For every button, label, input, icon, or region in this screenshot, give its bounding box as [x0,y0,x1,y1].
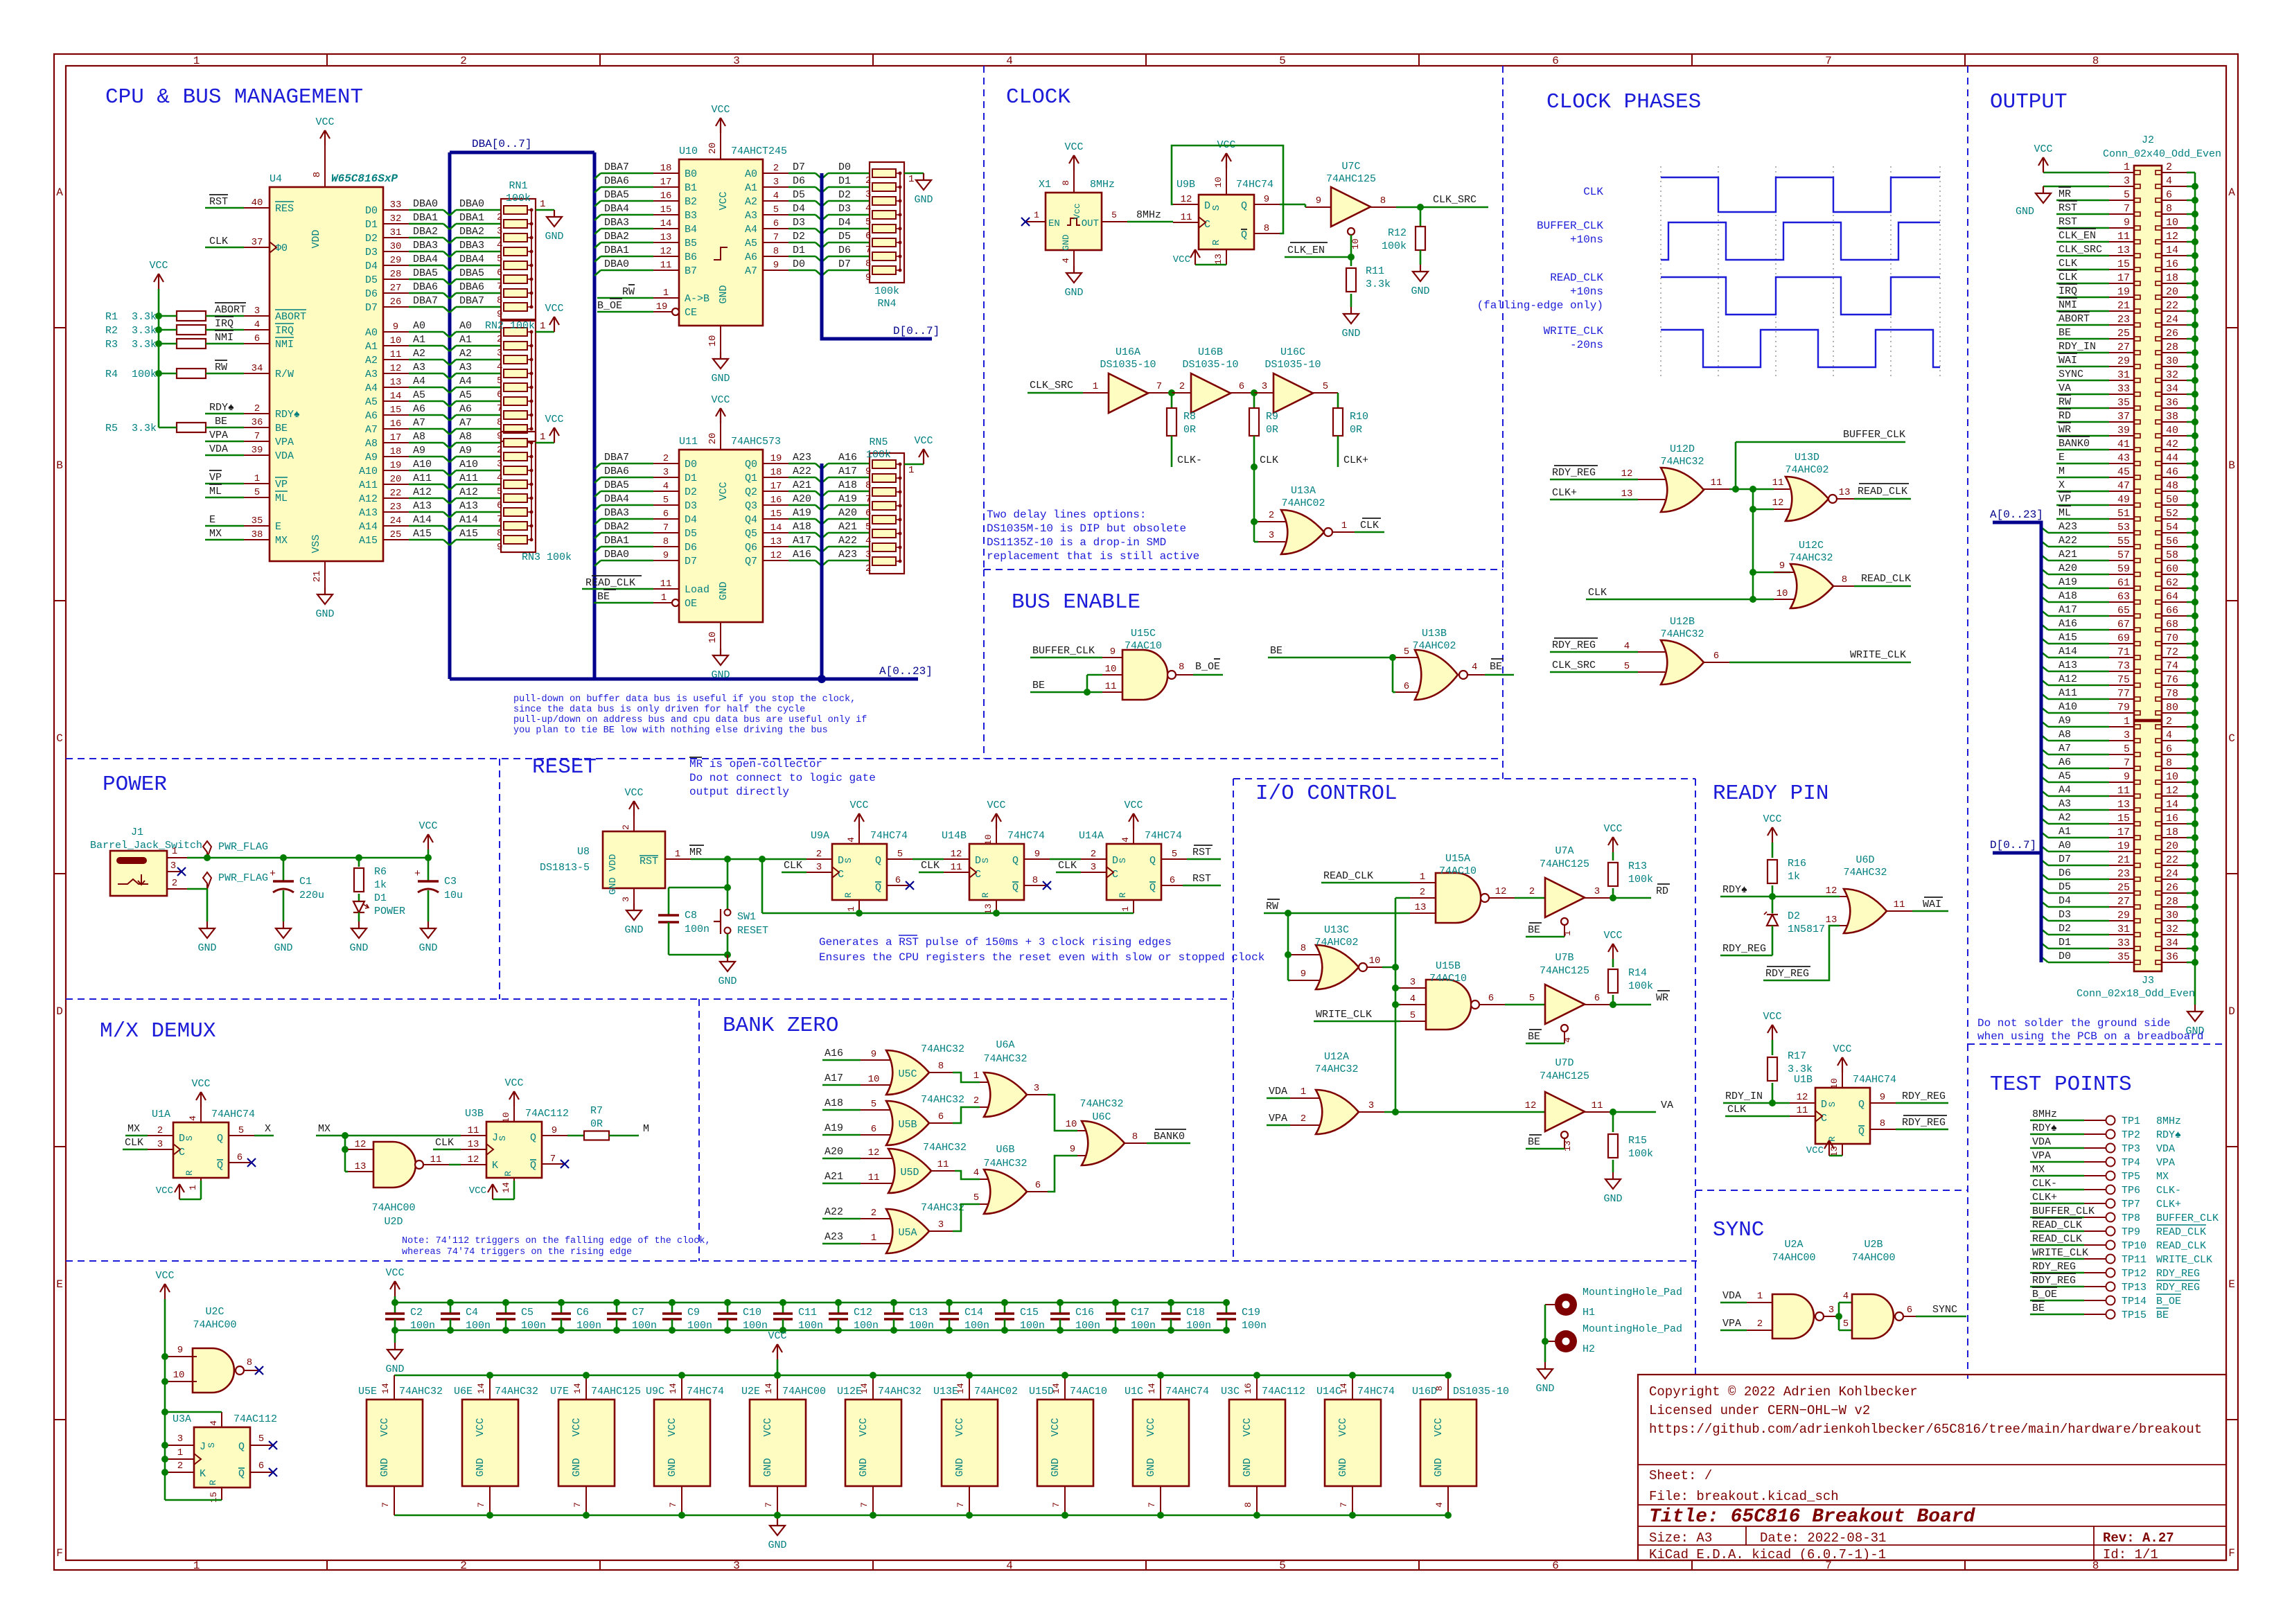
pin 15 B3 [653,214,679,215]
svg-text:BE: BE [1528,1136,1540,1148]
svg-text:3: 3 [1410,977,1416,988]
svg-text:SW1: SW1 [737,911,756,923]
svg-text:19: 19 [656,301,668,312]
svg-text:A0: A0 [745,168,757,180]
svg-text:8: 8 [1264,223,1269,234]
svg-text:POWER: POWER [374,906,405,917]
connector J2 pin row 75/76 [2109,685,2134,686]
svg-text:DBA2: DBA2 [604,521,629,533]
svg-text:GND: GND [1064,287,1083,299]
svg-text:MX: MX [209,528,222,540]
svg-text:4: 4 [1472,662,1477,673]
pin 9 A0 [383,331,409,333]
svg-text:GND: GND [315,608,334,620]
resistor R12 100k [1420,207,1422,226]
svg-text:8: 8 [1842,574,1847,585]
pin 4 D2 [653,491,679,492]
capacitor C10 100n [724,1299,731,1306]
svg-text:DBA7: DBA7 [604,161,629,173]
NAND gate U15B 74AC10 [1426,980,1471,1030]
svg-text:E: E [2059,452,2065,464]
wire [450,360,456,365]
svg-text:12: 12 [1826,885,1837,897]
switch SW1 RESET [725,910,731,916]
wire [1723,1102,1790,1104]
svg-text:20: 20 [707,143,719,155]
svg-text:X: X [2059,479,2065,491]
svg-text:D0: D0 [2059,951,2071,962]
svg-text:7: 7 [1051,1502,1061,1508]
wire [1550,651,1638,653]
pin 3 J [167,1445,194,1446]
svg-text:10: 10 [1066,1119,1077,1130]
svg-text:74AHC32: 74AHC32 [878,1386,922,1397]
svg-text:B: B [2228,459,2235,472]
svg-text:100n: 100n [798,1320,823,1332]
svg-text:WRITE_CLK: WRITE_CLK [1544,325,1604,337]
svg-text:12: 12 [1772,497,1784,509]
svg-text:4: 4 [663,481,669,492]
title block frame [1638,1375,2226,1560]
capacitor C18 100n [1167,1299,1174,1306]
svg-text:A20: A20 [825,1146,843,1158]
svg-text:C1: C1 [299,876,312,888]
svg-text:+: + [414,868,421,880]
net label A2 [2041,818,2048,824]
svg-text:VCC: VCC [155,1270,174,1282]
wire [1526,1148,1564,1150]
svg-text:ML: ML [209,486,222,497]
capacitor C11 100n [779,1299,786,1306]
svg-text:A15: A15 [359,535,378,547]
svg-text:2: 2 [497,445,502,456]
resistor R11 3.3k [1350,257,1352,266]
svg-text:VCC: VCC [2034,143,2052,155]
ground at J1 [206,921,208,928]
svg-text:A14: A14 [2059,646,2077,657]
svg-text:5: 5 [258,1433,264,1445]
svg-text:A11: A11 [413,473,432,484]
connector J2 pin row 49/50 [2109,504,2134,506]
svg-text:7: 7 [663,522,669,533]
pin 6 NMI [244,343,270,344]
svg-text:A10: A10 [459,459,478,470]
pin 2 [980,1106,988,1108]
svg-text:7: 7 [1156,381,1162,392]
svg-text:1: 1 [1034,210,1039,220]
svg-text:10: 10 [2166,217,2178,229]
connector J2 pin row 69/70 [2109,643,2134,644]
svg-text:1: 1 [177,1447,183,1458]
wire [1384,1111,1545,1113]
svg-text:5: 5 [1111,210,1117,220]
svg-text:DBA6: DBA6 [604,466,629,477]
svg-text:34: 34 [252,363,263,374]
svg-text:CLK+: CLK+ [2156,1199,2181,1210]
svg-text:A10: A10 [2059,701,2077,713]
pin 8 output BANK0 [1125,1142,1147,1144]
connector J3 pin row 9/10 [2109,782,2134,783]
svg-text:A18: A18 [2059,590,2077,602]
pin 11 output [931,1170,955,1172]
svg-text:D7: D7 [838,258,851,270]
svg-text:100k: 100k [1628,874,1653,885]
svg-text:U16B: U16B [1198,346,1223,358]
pin 3 output [1824,1316,1836,1317]
pin 6 Qbar [1161,885,1183,886]
bus DBA[0..7] vertical left [448,152,452,679]
svg-text:14: 14 [1147,1383,1157,1394]
svg-text:8: 8 [2092,55,2099,67]
wire [450,224,456,229]
svg-text:GND: GND [1535,1383,1554,1395]
svg-text:C10: C10 [743,1307,761,1318]
svg-text:9: 9 [2124,771,2130,783]
pin R wire below [996,900,997,913]
svg-text:7: 7 [497,514,502,525]
svg-text:A18: A18 [825,1097,843,1109]
wire [822,519,828,524]
svg-text:5: 5 [973,1192,979,1203]
svg-text:37: 37 [2117,411,2130,423]
power VCC [427,849,430,858]
resistor network RN2 100k [501,321,536,441]
svg-text:29: 29 [390,255,402,266]
svg-text:8: 8 [1434,1386,1445,1391]
svg-text:GND: GND [1061,234,1071,251]
pin 9 Q output RDY_REG [1870,1102,1896,1104]
svg-text:DBA1: DBA1 [604,245,629,256]
svg-text:2: 2 [1420,887,1425,898]
connector J2 pin row 23/24 [2109,324,2134,326]
svg-text:10: 10 [983,834,994,845]
svg-text:C: C [975,869,981,881]
wire [409,414,443,416]
svg-text:R: R [208,1480,218,1485]
svg-text:A12: A12 [413,486,432,498]
svg-text:21: 21 [2117,300,2130,312]
pin 12 [345,1149,348,1151]
svg-text:U3B: U3B [465,1108,484,1120]
svg-text:U16A: U16A [1116,346,1140,358]
pin 8 D6 [653,546,679,547]
svg-text:3: 3 [1034,1083,1039,1094]
svg-text:2: 2 [816,849,822,860]
svg-text:3: 3 [733,55,740,67]
wire [601,242,653,244]
svg-text:VCC: VCC [504,1077,523,1089]
wire [205,539,244,541]
svg-text:DBA6: DBA6 [413,281,438,293]
pin 2 [861,1218,890,1219]
svg-text:R17: R17 [1788,1050,1806,1062]
pin 1 [1747,1302,1772,1303]
svg-text:74AC10: 74AC10 [1439,865,1476,877]
svg-text:WRITE_CLK: WRITE_CLK [1316,1009,1372,1021]
svg-text:M/X DEMUX: M/X DEMUX [100,1019,216,1043]
svg-text:74AHC32: 74AHC32 [1660,456,1704,468]
svg-text:20: 20 [2166,286,2178,298]
svg-text:B4: B4 [685,224,697,236]
wire RW net [1264,912,1410,915]
svg-text:Generates a RST pulse of 150ms: Generates a RST pulse of 150ms + 3 clock… [819,936,1172,948]
svg-text:18: 18 [2166,827,2178,838]
wire [159,373,177,375]
svg-text:CLK: CLK [209,236,228,247]
ground below J3 rail [2194,1005,2196,1012]
svg-text:Conn_02x18_Odd_Even: Conn_02x18_Odd_Even [2077,988,2195,1000]
connector J2 pin row 17/18 [2109,283,2134,284]
diode D2 1N5817 [1772,897,1774,913]
svg-text:A2: A2 [745,196,757,208]
svg-text:74AHC32: 74AHC32 [1079,1098,1123,1110]
wire [205,207,244,209]
svg-text:17: 17 [660,177,672,188]
svg-text:23: 23 [2117,314,2130,326]
svg-text:6: 6 [497,267,502,279]
svg-text:U4: U4 [270,173,282,185]
capacitor C5 100n [502,1299,509,1306]
wire [1526,1043,1564,1045]
svg-text:4: 4 [209,1420,219,1426]
svg-text:I/O CONTROL: I/O CONTROL [1255,782,1398,806]
svg-text:IRQ: IRQ [2059,285,2077,297]
svg-text:GND: GND [349,942,368,954]
connector J2 pin row 77/78 [2109,698,2134,700]
pin 9 Q [1024,858,1050,860]
wire [601,270,653,272]
svg-text:1: 1 [188,1185,198,1190]
svg-text:D: D [1204,200,1210,212]
svg-text:30: 30 [2166,355,2178,367]
svg-text:U13A: U13A [1291,485,1316,497]
pin 9 [167,1356,197,1357]
svg-text:Q: Q [875,855,881,867]
wire [409,209,443,211]
wire MX to U3B [316,1135,461,1137]
svg-text:https://github.com/adrienkohlb: https://github.com/adrienkohlbecker/65C8… [1649,1422,2202,1437]
ground at RN1 [554,210,555,217]
svg-text:8: 8 [2166,757,2172,769]
pin 3 [1258,541,1285,542]
wire [450,332,456,337]
OR gate U6D 74AHC32 [1844,889,1887,933]
wire [205,247,244,249]
svg-text:RW: RW [1266,901,1278,912]
svg-text:1: 1 [540,199,545,210]
svg-text:17: 17 [770,481,782,492]
svg-text:GND: GND [667,1458,678,1476]
svg-text:4: 4 [1434,1502,1445,1508]
svg-text:6: 6 [2166,189,2172,201]
wire [822,1084,861,1086]
section divider CLOCK left [983,66,985,570]
connector J2 pin row 25/26 [2109,338,2134,339]
pin 13 A4 [383,387,409,388]
svg-text:6: 6 [497,389,502,400]
svg-text:35: 35 [2117,951,2130,963]
svg-text:A: A [2228,186,2235,199]
svg-text:DBA1: DBA1 [604,535,629,547]
svg-text:C15: C15 [1020,1307,1039,1318]
pin 4 output BE inverted [1467,674,1485,676]
svg-text:CLK: CLK [921,860,940,872]
svg-text:Load: Load [685,584,709,596]
svg-text:6: 6 [258,1460,264,1472]
wire [1725,1115,1790,1118]
svg-text:3.3k: 3.3k [132,423,157,434]
svg-text:Q: Q [875,882,881,894]
net label A4 [2041,791,2048,796]
svg-text:CLOCK PHASES: CLOCK PHASES [1546,90,1701,114]
svg-text:A4: A4 [365,382,378,394]
svg-text:D6: D6 [685,542,697,554]
svg-text:TP1: TP1 [2122,1115,2140,1127]
IC U1A 74AHC74 flip-flop [173,1122,229,1178]
svg-text:8: 8 [1243,1502,1253,1508]
svg-text:B1: B1 [685,182,697,194]
svg-text:11: 11 [660,260,672,271]
frame row ticks [54,327,66,328]
svg-text:U15B: U15B [1436,960,1461,972]
pin 8 output [1370,206,1396,208]
IC U6E 74AHC32 power unit [462,1400,518,1486]
pin 10 [861,1084,890,1086]
section divider POWER/RESET [499,759,500,999]
svg-text:Q: Q [1012,855,1019,867]
svg-text:6: 6 [1713,651,1719,662]
schmitt trigger mark inside U10 [714,247,728,260]
capacitor C14 100n [946,1299,953,1306]
svg-text:33: 33 [390,200,402,211]
pin 8 [1290,954,1320,955]
svg-text:6: 6 [254,333,260,344]
pin 13 C [461,1149,486,1150]
wire [187,888,207,890]
svg-text:U5D: U5D [900,1167,919,1179]
wire [409,223,443,225]
svg-text:A10: A10 [413,459,432,470]
svg-text:CLK_EN: CLK_EN [2059,230,2096,242]
wire [409,265,443,267]
connector J2 pin row 55/56 [2109,546,2134,547]
svg-text:whereas 74'74 triggers on the: whereas 74'74 triggers on the rising edg… [402,1247,632,1257]
svg-text:9: 9 [1264,194,1269,205]
svg-text:CLK: CLK [1360,520,1379,531]
svg-text:7: 7 [2124,203,2130,215]
wire [727,859,729,909]
svg-text:2: 2 [460,55,467,67]
section divider OUTPUT left [1967,66,1968,1044]
svg-text:R: R [1211,239,1222,245]
capacitor C19 100n [1223,1299,1230,1306]
svg-text:VPA: VPA [275,436,294,448]
svg-text:74AHC32: 74AHC32 [1660,628,1704,640]
svg-text:A14: A14 [359,521,378,533]
svg-text:A21: A21 [825,1171,843,1183]
svg-text:TP2: TP2 [2122,1129,2140,1141]
net label A18 [2041,597,2048,602]
svg-text:C12: C12 [854,1307,872,1318]
svg-text:55: 55 [2117,536,2130,547]
svg-text:RST: RST [1192,873,1211,885]
power pin 10 GND below U10 [720,326,721,352]
pin 5 Q output X [229,1135,254,1136]
svg-text:0R: 0R [1350,424,1362,436]
svg-text:VCC: VCC [475,1418,486,1436]
svg-text:100k: 100k [866,449,891,461]
svg-text:C3: C3 [444,876,457,888]
LED D1 POWER [358,894,360,901]
svg-text:74AHC573: 74AHC573 [731,436,781,448]
svg-text:GND: GND [2016,206,2034,218]
svg-text:S: S [980,858,991,863]
svg-text:35: 35 [252,515,263,527]
svg-text:25: 25 [390,529,402,540]
svg-text:A14: A14 [413,514,432,526]
pin 2 [1172,392,1191,394]
svg-text:ABORT: ABORT [275,311,306,323]
svg-text:1: 1 [1757,1291,1763,1302]
svg-text:77: 77 [2117,688,2130,700]
svg-text:M: M [2059,466,2065,477]
svg-text:74AHC32: 74AHC32 [399,1386,443,1397]
svg-text:1: 1 [193,1560,200,1572]
svg-text:GND: GND [762,1458,774,1476]
svg-text:14: 14 [572,1383,583,1394]
svg-text:27: 27 [2117,342,2130,353]
svg-text:C5: C5 [521,1307,534,1318]
svg-text:5: 5 [238,1125,244,1136]
svg-text:25: 25 [2117,882,2130,894]
svg-text:DBA5: DBA5 [459,267,484,279]
svg-text:39: 39 [252,445,263,456]
svg-text:RW: RW [622,286,635,298]
svg-text:VDA: VDA [2156,1143,2175,1155]
pin 20 A11 [383,484,409,485]
ground at J2 pin3 [2043,186,2109,188]
power VCC at U9B reset pin [1195,249,1196,265]
svg-text:VDA: VDA [1269,1086,1287,1097]
svg-text:VCC: VCC [545,303,563,315]
svg-text:U9A: U9A [811,830,829,842]
svg-text:GND: GND [711,373,730,385]
pin 9 input [1305,206,1331,208]
svg-text:VCC: VCC [315,116,334,128]
svg-text:10: 10 [173,1370,185,1381]
svg-text:A6: A6 [2059,757,2071,768]
svg-text:VCC: VCC [987,800,1005,811]
wire [409,400,443,403]
svg-text:9: 9 [1034,849,1040,860]
wire [450,457,456,462]
svg-text:28: 28 [390,269,402,280]
svg-text:14: 14 [2166,799,2178,811]
svg-text:11: 11 [1592,1100,1603,1111]
svg-text:78: 78 [2166,688,2178,700]
wire [450,470,456,476]
svg-text:BANK ZERO: BANK ZERO [723,1014,838,1038]
pin 2 [1747,1330,1772,1331]
pin 18 B0 [653,173,679,174]
wire [409,345,443,347]
svg-text:Vcc: Vcc [1072,203,1082,219]
svg-text:A8: A8 [2059,729,2071,741]
pin 11 A2 [383,359,409,360]
buffer U7C 74AHC125 [1331,187,1370,227]
svg-text:GND: GND [545,231,563,242]
svg-text:replacement that is still acti: replacement that is still active [987,550,1199,563]
